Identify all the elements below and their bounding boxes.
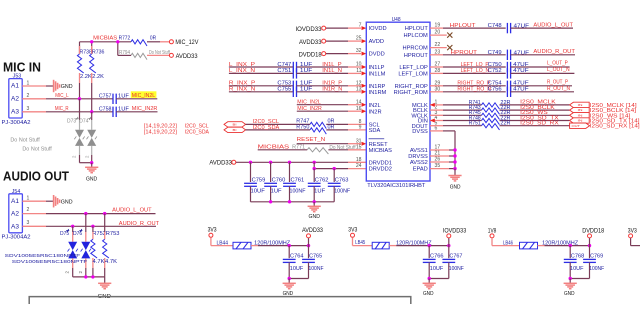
svg-text:A2: A2 [11, 95, 20, 102]
net MIC_IN2R [116, 106, 157, 112]
pin number 18 [356, 157, 362, 163]
pin name HPROUT [404, 53, 429, 59]
resistor R738 [77, 46, 92, 73]
notes box [29, 297, 411, 304]
net I2C0_SDA [253, 125, 280, 131]
svg-text:IN: IN [578, 119, 583, 123]
svg-text:100NF: 100NF [334, 189, 351, 195]
svg-text:10UF: 10UF [290, 266, 304, 272]
capacitor C760 [264, 162, 285, 202]
label PJ-3004A2 [2, 120, 31, 126]
svg-text:13: 13 [356, 86, 362, 92]
junction [90, 161, 93, 164]
svg-text:DVDD: DVDD [369, 52, 385, 58]
pin22 HPRCOM nc [430, 45, 452, 50]
value 120R/100MHZ [396, 241, 432, 247]
resistor R748 [469, 115, 511, 124]
svg-text:D73: D73 [67, 118, 76, 124]
ground [423, 279, 436, 298]
label I2S0_WS [14] [590, 113, 631, 119]
svg-text:D75: D75 [60, 231, 69, 237]
junction [91, 225, 94, 228]
svg-text:C755: C755 [277, 87, 291, 93]
junction [453, 160, 456, 163]
svg-text:EPAD: EPAD [413, 167, 428, 173]
svg-text:3V3: 3V3 [628, 228, 638, 234]
svg-text:IN1LM: IN1LM [369, 72, 386, 78]
svg-text:L_OUT_P: L_OUT_P [547, 61, 568, 67]
svg-text:RIGHT_ROM: RIGHT_ROM [394, 90, 428, 96]
power 3V3 [208, 228, 218, 238]
wire DRVDD2 rail [314, 162, 366, 168]
svg-text:MICBIAS: MICBIAS [369, 148, 393, 154]
resistor R750 [296, 125, 334, 135]
offpage I2S0_WS [570, 113, 590, 118]
svg-text:I2S0_SD_RX: I2S0_SD_RX [520, 121, 559, 127]
junction [569, 244, 572, 247]
svg-text:[14,19,20,22]: [14,19,20,22] [144, 123, 178, 129]
power IOVDD33 [443, 228, 467, 245]
svg-text:MIC_R: MIC_R [55, 106, 69, 112]
net RESET_N [297, 137, 367, 146]
pin name AVDD [369, 39, 384, 45]
capacitor C762 [308, 169, 329, 202]
pin name HPRCOM [403, 46, 429, 52]
pin name MCLK [412, 103, 428, 109]
wire cap bottoms [429, 278, 449, 280]
svg-text:C761: C761 [291, 177, 305, 183]
pin name AVSS1 [410, 148, 428, 154]
svg-text:A3: A3 [11, 224, 20, 231]
net MIC_IN2L [116, 93, 157, 99]
pin name IN1RM [369, 90, 387, 96]
junction [84, 212, 87, 215]
svg-text:AUDIO_L_OUT: AUDIO_L_OUT [112, 208, 152, 214]
resistor R741 [469, 100, 511, 109]
junction [428, 244, 431, 247]
resistor R747 [296, 119, 334, 129]
ground [98, 277, 112, 300]
svg-text:IOVDD33: IOVDD33 [296, 27, 323, 33]
svg-text:A1: A1 [11, 198, 20, 205]
svg-text:3V3: 3V3 [348, 228, 358, 234]
capacitor C752 [488, 68, 530, 78]
svg-text:DRVDD1: DRVDD1 [369, 160, 392, 166]
svg-text:TLV320AIC3101IRHBT: TLV320AIC3101IRHBT [367, 183, 426, 189]
svg-text:R751: R751 [469, 121, 481, 127]
pin20 HPLCOM nc [430, 33, 452, 38]
value 120R/100MHZ [254, 241, 291, 247]
svg-text:2.2K: 2.2K [80, 74, 92, 80]
pin number 32 [356, 48, 362, 54]
offpage BI SCL [224, 122, 246, 127]
junction [84, 275, 87, 278]
svg-text:HPLOUT: HPLOUT [450, 23, 477, 29]
capacitor C756 [488, 87, 530, 97]
ferrite bead LB44 [217, 241, 252, 249]
wire 1V8 to LB46 [492, 238, 520, 246]
pin number 7 [359, 23, 362, 29]
pin number 14 [356, 99, 362, 105]
wire to gnd [80, 162, 92, 164]
diode D74 (DNS) [79, 112, 97, 163]
svg-text:IOVDD: IOVDD [369, 26, 387, 32]
svg-text:R772: R772 [119, 36, 131, 42]
svg-text:A3: A3 [11, 108, 20, 115]
pin name IN1RP [369, 84, 386, 90]
power DVDD18 [582, 228, 605, 245]
pin 2 wire [22, 207, 155, 213]
net MICBIAS stub [258, 145, 308, 151]
pin number 20 [435, 30, 441, 36]
pin number 23 [435, 49, 441, 55]
capacitor C769 [583, 246, 605, 279]
pin name HPLCOM [403, 33, 428, 39]
wire AVDD33 rail [236, 161, 366, 163]
pin 3 wire MIC_R [22, 106, 113, 112]
capacitor C761 [283, 162, 306, 202]
wire SDA [246, 129, 310, 131]
junction [307, 244, 310, 247]
svg-text:15: 15 [356, 144, 362, 150]
svg-text:RESET: RESET [369, 142, 388, 148]
junction [269, 200, 272, 203]
svg-text:IN: IN [578, 113, 583, 117]
ground [308, 202, 321, 220]
pin 2 wire MIC_L [22, 93, 113, 99]
svg-text:IN1LP: IN1LP [369, 65, 385, 71]
pin name IN1LM [369, 72, 386, 78]
label I2S0_MCLK [14] [590, 103, 637, 109]
svg-text:C756: C756 [488, 87, 502, 93]
svg-text:10: 10 [356, 62, 362, 68]
wire 3V3 to LB44 [211, 238, 233, 246]
svg-text:R752: R752 [93, 231, 106, 237]
svg-text:A2: A2 [11, 210, 20, 217]
junction [288, 161, 291, 164]
svg-text:DVDD18: DVDD18 [299, 52, 323, 58]
net MIC_IN2L stub [297, 99, 367, 106]
svg-text:1UF: 1UF [314, 189, 326, 195]
pin name BCLK [413, 108, 428, 114]
svg-text:AUDIO OUT: AUDIO OUT [3, 169, 69, 183]
pin number 11 [356, 68, 361, 74]
svg-text:IOVDD33: IOVDD33 [443, 228, 467, 234]
connector J54 [9, 189, 23, 233]
svg-text:L_OUT_N: L_OUT_N [547, 67, 570, 73]
svg-text:100NF: 100NF [290, 189, 307, 195]
svg-text:C759: C759 [252, 177, 266, 183]
junction [90, 110, 93, 113]
pin23 HPROUT wire [430, 54, 506, 56]
resistor R794 (DNS) [119, 50, 170, 60]
net L_INX_N [229, 68, 293, 74]
svg-text:C769: C769 [590, 254, 603, 260]
svg-text:SDV1005E5R5C180NPTF: SDV1005E5R5C180NPTF [12, 259, 88, 264]
svg-text:LB44: LB44 [217, 241, 229, 247]
net MIC_IN2R stub [297, 106, 367, 113]
value 4.7K [105, 259, 117, 265]
capacitor C757 [99, 94, 130, 105]
wire DVDD [326, 52, 366, 56]
pin2 label [78, 271, 83, 274]
pin number 35 [435, 163, 441, 169]
svg-text:3: 3 [27, 106, 30, 112]
svg-text:RIGHT_RO_N: RIGHT_RO_N [457, 87, 491, 93]
svg-text:2: 2 [27, 93, 30, 99]
value 2.2K [80, 74, 92, 80]
svg-text:MIC IN: MIC IN [3, 60, 41, 74]
wire R738 leg [79, 73, 81, 99]
value 4.7K [93, 259, 105, 265]
pin name IOVDD [369, 26, 387, 32]
label I2S0_BCLK [14] [590, 108, 637, 114]
net R_OUT_N [511, 86, 574, 92]
net IN1R_N wire [297, 87, 367, 94]
net AUDIO_L_OUT [112, 208, 152, 214]
net R_INX_P [229, 81, 293, 87]
pin number 1 [435, 100, 438, 106]
junction [447, 244, 450, 247]
pin name DRVDD1 [369, 160, 392, 166]
junction [91, 275, 94, 278]
svg-text:1V8: 1V8 [488, 228, 497, 234]
junction [333, 167, 336, 170]
wire DVSS [430, 131, 455, 169]
pin number 3 [435, 110, 438, 116]
svg-text:HPRCOM: HPRCOM [403, 46, 429, 52]
pin17 AVSS1 wire [430, 149, 455, 151]
pin name MICBIAS [369, 148, 393, 154]
svg-text:Do Not Stuff: Do Not Stuff [22, 146, 52, 152]
svg-text:LEFT_LOM: LEFT_LOM [398, 72, 428, 78]
svg-text:GND: GND [61, 84, 73, 90]
svg-text:2: 2 [27, 207, 30, 213]
resistor R752 [91, 226, 106, 277]
net I2S0_WS [500, 110, 570, 116]
wire R794 row [118, 54, 169, 56]
ref I2C0_SCL [144, 123, 209, 129]
pin number 9 [359, 125, 362, 131]
value 2.2K [92, 74, 104, 80]
diode D73 (DNS) [67, 99, 85, 163]
pin name SDA [369, 128, 381, 134]
wire R736 leg [91, 73, 93, 112]
power DVDD18 [299, 52, 326, 59]
pin name IN2L [369, 103, 381, 109]
ferrite bead LB46 [503, 240, 538, 249]
label SDV1005E5R5C180NPTF [12, 259, 88, 264]
junction [103, 212, 106, 215]
svg-text:PJ-3004A2: PJ-3004A2 [2, 235, 31, 241]
svg-text:2.2K: 2.2K [92, 74, 104, 80]
pin name RIGHT_ROM [394, 90, 428, 96]
net I2S0_BCLK [500, 105, 570, 111]
svg-text:GND: GND [450, 184, 461, 190]
svg-text:10UF: 10UF [251, 189, 266, 195]
pin name DRVDD2 [369, 167, 392, 173]
wire cap bottoms [251, 201, 335, 203]
pin name DIN [418, 119, 428, 125]
resistor R745 [469, 110, 511, 119]
svg-text:DRVDD2: DRVDD2 [369, 167, 392, 173]
net HPLOUT [450, 23, 477, 29]
svg-text:AVDD33: AVDD33 [176, 54, 199, 60]
capacitor C753 [277, 81, 313, 91]
svg-text:C750: C750 [488, 62, 502, 68]
svg-text:SDV1005E5R5C180NPTF: SDV1005E5R5C180NPTF [5, 253, 81, 258]
wire I2S0_SD_TX left [430, 119, 482, 123]
pin number 26 [435, 157, 441, 163]
capacitor C754 [488, 81, 530, 91]
wire MICBIAS row [80, 42, 132, 56]
net R_INX_N [229, 87, 293, 93]
pin28 LEFT_LO_N wire [430, 72, 506, 74]
offpage I2S0_SD_TX [570, 118, 590, 123]
svg-text:IN1RM: IN1RM [369, 90, 387, 96]
svg-text:GND: GND [423, 291, 434, 297]
ground [448, 169, 461, 191]
svg-text:AUDIO_R_OUT: AUDIO_R_OUT [119, 221, 160, 227]
svg-text:LEFT_LO_P: LEFT_LO_P [461, 62, 489, 68]
pin number 15 [356, 144, 362, 150]
pin27 LEFT_LO_P wire [430, 66, 506, 68]
svg-text:3: 3 [27, 220, 30, 226]
pin number 17 [435, 145, 441, 151]
pin2 label [65, 271, 70, 274]
pin name DOUT [412, 124, 429, 130]
wire to MIC_12V [147, 41, 169, 43]
capacitor C766 [423, 246, 444, 279]
svg-text:4.7K: 4.7K [105, 259, 117, 265]
wire IOVDD [326, 26, 366, 30]
wire I2S0_SD_RX left [430, 125, 482, 127]
power 3V3 [628, 228, 638, 238]
pin number 13 [356, 86, 362, 92]
ref I2C0_SDA [144, 130, 210, 136]
junction [313, 167, 316, 170]
junction [288, 200, 291, 203]
junction [313, 200, 316, 203]
wire I2S0_BCLK left [430, 109, 482, 111]
offpage I2S0_MCLK [570, 102, 590, 107]
junction [428, 277, 431, 280]
pin35 EPAD wire [430, 167, 457, 170]
svg-text:LB46: LB46 [503, 240, 513, 246]
svg-text:DVSS: DVSS [412, 129, 428, 135]
pin number 4 [435, 115, 438, 121]
RESET overline [369, 138, 385, 140]
net IN1R_P wire [297, 81, 367, 88]
svg-text:C762: C762 [315, 177, 329, 183]
ground [564, 279, 577, 298]
junction [453, 148, 456, 151]
svg-text:3V3: 3V3 [208, 228, 218, 234]
svg-text:HPLOUT: HPLOUT [405, 26, 429, 32]
pin2 label [72, 155, 77, 158]
svg-text:MIC_L: MIC_L [55, 93, 68, 99]
highlight [131, 91, 157, 98]
power 3V3 [348, 228, 358, 238]
svg-text:C760: C760 [272, 177, 286, 183]
pin26 AVSS2 wire [430, 161, 455, 163]
svg-text:C766: C766 [430, 254, 444, 260]
junction [116, 40, 119, 43]
net LEFT_LO_N [461, 68, 490, 74]
resistor R736 [90, 46, 105, 73]
wire to DVDD18 [538, 245, 590, 247]
capacitor C755 [277, 87, 313, 97]
net IN1L_N wire [297, 68, 367, 75]
label I2S0_SD_TX [14] [590, 119, 640, 125]
net L_OUT_N [511, 67, 575, 73]
net MIC_R [55, 106, 69, 112]
svg-text:10UF: 10UF [570, 266, 584, 272]
pin number 30 [435, 86, 441, 92]
svg-text:100NF: 100NF [309, 266, 325, 272]
ground [85, 163, 98, 183]
svg-text:HPROUT: HPROUT [404, 53, 429, 59]
svg-text:C751: C751 [277, 68, 291, 74]
net MIC_L [55, 93, 68, 99]
note Do Not Stuff [10, 138, 40, 144]
title AUDIO OUT [3, 169, 69, 183]
resistor R771 (DNS) [292, 145, 356, 154]
resistor R753 [103, 214, 120, 277]
svg-text:AVDD33: AVDD33 [302, 228, 324, 234]
capacitor C751 [277, 68, 313, 78]
pin 1 wire [22, 80, 53, 86]
junction [78, 97, 81, 100]
wire diode bottoms [73, 276, 105, 278]
svg-text:IN: IN [578, 108, 583, 112]
label I2S0_SD_RX [14] [590, 124, 640, 130]
svg-text:C765: C765 [309, 254, 322, 260]
chassis gnd J53 [54, 80, 73, 92]
svg-text:GND: GND [86, 176, 97, 182]
pin name HPLOUT [405, 26, 429, 32]
svg-text:GND: GND [309, 214, 320, 220]
junction [313, 161, 316, 164]
pin name DVSS [412, 129, 428, 135]
svg-text:R753: R753 [106, 231, 120, 237]
net MICBIAS [93, 36, 117, 42]
net LEFT_LO_P [461, 62, 489, 68]
pin name WCLK [411, 113, 428, 119]
pin number 16 [356, 106, 362, 112]
svg-text:MIC_12V: MIC_12V [175, 40, 198, 46]
net R_OUT_P [511, 80, 572, 86]
value 120R/100MHZ [542, 240, 579, 246]
net I2S0_MCLK [500, 100, 570, 106]
svg-text:I2C0_SCL: I2C0_SCL [185, 123, 209, 129]
capacitor C759 [244, 162, 265, 202]
net I2S0_SD_TX [500, 115, 570, 121]
svg-text:31: 31 [356, 138, 362, 144]
note Do Not Stuff [22, 146, 52, 152]
capacitor C763 [328, 169, 351, 202]
svg-text:[14,19,20,22]: [14,19,20,22] [144, 130, 178, 136]
capacitor C747 [277, 62, 313, 72]
svg-text:C757: C757 [99, 94, 112, 100]
svg-text:PJ-3004A2: PJ-3004A2 [2, 120, 31, 126]
svg-text:D76: D76 [73, 231, 82, 237]
pin21 DRVSS wire [430, 155, 455, 157]
net RIGHT_RO_P [457, 81, 490, 87]
net I2S0_SD_RX [500, 121, 570, 127]
pin number 28 [435, 68, 441, 74]
capacitor C758 [99, 106, 130, 117]
